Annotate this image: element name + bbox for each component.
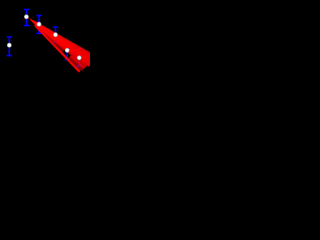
data point 0: [7, 43, 11, 47]
error bar 0: [7, 37, 12, 56]
error bar 3: [53, 27, 58, 42]
data point 4: [65, 48, 69, 52]
error bar 1: [24, 10, 29, 26]
red fan outer segments: [34, 25, 84, 72]
data point 3: [53, 33, 57, 37]
error bar 2: [36, 16, 41, 34]
data point 5: [77, 56, 81, 60]
error bar 4: [65, 42, 70, 60]
error bar 5: [77, 49, 82, 67]
red fan rays: [28, 18, 96, 68]
data point 1: [24, 15, 28, 19]
data point 2: [37, 22, 41, 26]
